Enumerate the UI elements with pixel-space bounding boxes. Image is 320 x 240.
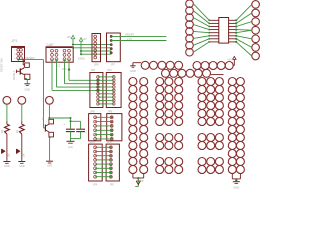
wire RST long bbox=[111, 35, 166, 37]
capacitor block CAP bbox=[46, 47, 73, 62]
wire riser 3 bbox=[65, 59, 99, 84]
ground S1 bbox=[46, 161, 53, 167]
wire cap feed bbox=[49, 117, 71, 119]
svg-text:JP1: JP1 bbox=[12, 39, 18, 43]
svg-text:GND: GND bbox=[25, 89, 31, 92]
resistor R2 bbox=[23, 60, 29, 68]
wire links JP2-JP3 bbox=[97, 77, 114, 104]
svg-text:(A4): (A4) bbox=[68, 146, 73, 149]
connector JP7 bbox=[107, 33, 121, 62]
connector JP8 bbox=[89, 114, 101, 141]
svg-text:RESET: RESET bbox=[12, 71, 16, 80]
pad array pair 2 bbox=[228, 78, 244, 174]
connector JP2 bbox=[90, 73, 103, 108]
ground C1 bbox=[67, 141, 75, 149]
pad circle R3 bbox=[3, 96, 11, 104]
net flag R1 bbox=[16, 149, 19, 153]
svg-text:JP5: JP5 bbox=[107, 140, 112, 144]
ground GND1 bbox=[24, 84, 30, 92]
svg-text:(GND): (GND) bbox=[78, 58, 85, 61]
capacitor C1 bbox=[63, 118, 75, 141]
wire riser 2 bbox=[57, 59, 99, 87]
wire R3 bottom bbox=[6, 134, 8, 161]
wire links row C bbox=[95, 147, 111, 176]
svg-text:JP6: JP6 bbox=[94, 63, 99, 67]
svg-text:R1: R1 bbox=[15, 129, 19, 133]
ground pair 1 bbox=[133, 174, 144, 187]
wire bus to headers bbox=[72, 44, 111, 56]
svg-text:+5V: +5V bbox=[82, 38, 87, 41]
svg-text:JP7: JP7 bbox=[111, 63, 116, 67]
svg-text:+: + bbox=[63, 122, 65, 126]
svg-text:JP5: JP5 bbox=[110, 183, 115, 186]
supply +5V arrow A bbox=[67, 35, 75, 44]
transistor S1 bbox=[45, 119, 54, 137]
connector JP9 bbox=[107, 114, 122, 141]
wire to ground bbox=[25, 78, 27, 84]
svg-text:JP4: JP4 bbox=[90, 140, 95, 144]
svg-text:3: 3 bbox=[14, 54, 16, 56]
svg-text:JP: JP bbox=[141, 180, 144, 183]
svg-text:JP8: JP8 bbox=[90, 109, 95, 113]
svg-text:JP4: JP4 bbox=[93, 183, 98, 186]
svg-text:C1: C1 bbox=[57, 64, 61, 68]
pad chain row 2 bbox=[162, 69, 211, 77]
connector JP1 bbox=[12, 47, 25, 62]
wire S1 source bbox=[49, 136, 51, 161]
transistor Q1 bbox=[16, 67, 24, 74]
svg-text:JP9: JP9 bbox=[108, 109, 113, 113]
pad column right of U1 bbox=[252, 1, 260, 60]
svg-text:GND: GND bbox=[19, 165, 25, 168]
svg-text:RESET: RESET bbox=[26, 56, 36, 60]
ground R3 bbox=[3, 162, 10, 168]
pad array triple 1 bbox=[156, 78, 183, 174]
ic U1 body bbox=[219, 18, 229, 44]
ic U1 left pins bbox=[208, 19, 219, 42]
pad circle R1 bbox=[18, 96, 26, 104]
svg-text:JP3: JP3 bbox=[107, 68, 112, 72]
wire SCL long bbox=[111, 40, 166, 42]
connector JP4 bbox=[89, 144, 103, 181]
resistor R3 bbox=[6, 121, 8, 124]
pad chain row 1 left bbox=[141, 61, 182, 69]
wire R1 top bbox=[21, 104, 23, 121]
ground pair 2 bbox=[232, 174, 240, 190]
pad array triple 2 bbox=[198, 78, 223, 174]
svg-text:5: 5 bbox=[14, 58, 16, 60]
wire riser 4 bbox=[69, 59, 98, 80]
capacitor C2 bbox=[70, 120, 88, 138]
resistor R1 bbox=[21, 121, 23, 124]
wires right fan U1 bbox=[236, 4, 252, 56]
ic U1 right pins bbox=[229, 19, 238, 43]
svg-text:RESET: RESET bbox=[126, 33, 135, 37]
wire links row B bbox=[95, 117, 112, 139]
svg-text:C1: C1 bbox=[85, 129, 88, 133]
wire RESET net bbox=[17, 59, 43, 61]
svg-text:CAP: CAP bbox=[47, 43, 55, 47]
pad column left of U1 bbox=[186, 0, 194, 56]
wire R3 top bbox=[6, 104, 8, 121]
wire riser 1 bbox=[52, 59, 98, 90]
svg-text:+5V: +5V bbox=[67, 36, 72, 39]
supply +5V chain bbox=[227, 56, 236, 65]
svg-text:GND: GND bbox=[130, 69, 136, 73]
svg-text:(A0): (A0) bbox=[47, 165, 52, 168]
ground chain left bbox=[130, 63, 141, 73]
svg-text:GND: GND bbox=[4, 165, 10, 168]
supply +5V arrow B bbox=[79, 38, 87, 55]
ground R1 bbox=[18, 162, 25, 168]
connector JP5 bbox=[106, 144, 119, 181]
wire S1 drain bbox=[48, 104, 50, 119]
svg-text:10K: 10K bbox=[23, 153, 25, 158]
svg-text:R3: R3 bbox=[0, 129, 4, 133]
connector JP3 bbox=[106, 73, 121, 108]
svg-text:1-TX: 1-TX bbox=[127, 38, 133, 41]
svg-text:10K: 10K bbox=[9, 153, 11, 158]
pad chain row 1 right bbox=[193, 62, 233, 70]
pad circle S1 bbox=[46, 96, 54, 104]
wire row2 stub bbox=[211, 74, 224, 76]
pad array pair 1 bbox=[129, 78, 148, 174]
wires left fan U1 bbox=[193, 4, 209, 53]
resistor R5 bbox=[25, 74, 30, 79]
svg-text:GND: GND bbox=[233, 185, 239, 189]
net flag R3 bbox=[2, 149, 5, 153]
wire RESET to switch bbox=[44, 60, 46, 128]
connector JP6 bbox=[92, 34, 101, 62]
svg-text:RESET-SW: RESET-SW bbox=[0, 58, 4, 72]
wire R1 bottom bbox=[21, 134, 23, 161]
svg-text:+5V: +5V bbox=[227, 59, 232, 62]
svg-text:JP2: JP2 bbox=[91, 68, 96, 72]
svg-text:1: 1 bbox=[14, 50, 16, 52]
